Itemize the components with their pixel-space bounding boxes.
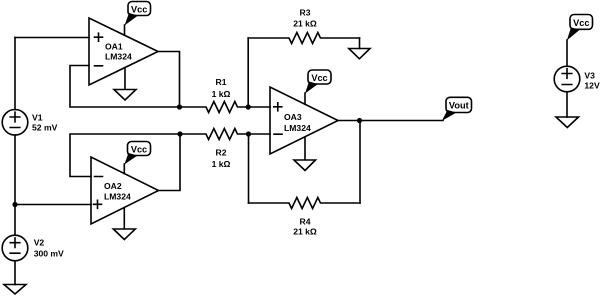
voltage source V3: [554, 66, 580, 92]
wire OA2 output: [159, 134, 181, 191]
node R1 right junction: [246, 104, 251, 109]
node OA1 output junction: [177, 104, 182, 109]
svg-text:V1: V1: [32, 112, 43, 122]
wire OA2 feedback minus input: [70, 134, 180, 177]
wire V3 Vcc stub: [566, 40, 568, 66]
svg-text:Vout: Vout: [449, 100, 469, 110]
svg-text:LM324: LM324: [105, 52, 132, 62]
wire V1 to V2 rail: [14, 135, 16, 235]
op-amp OA1: [89, 18, 158, 85]
svg-text:21 kΩ: 21 kΩ: [293, 19, 317, 29]
svg-text:V2: V2: [34, 238, 45, 248]
resistor R1: [180, 102, 249, 113]
wire R4 right vertical: [359, 121, 361, 204]
ground below V2: [4, 285, 26, 295]
svg-text:21 kΩ: 21 kΩ: [293, 227, 317, 237]
svg-text:R2: R2: [216, 147, 227, 157]
node OA3 output junction: [357, 118, 362, 123]
node OA2 output junction: [177, 131, 182, 136]
wire OA2 Vcc stub: [123, 164, 125, 174]
svg-text:V3: V3: [584, 71, 595, 81]
flag tail Vcc OA3: [305, 82, 318, 94]
resistor R3: [248, 33, 359, 44]
svg-text:LM324: LM324: [104, 192, 131, 202]
wire R3 right down: [359, 38, 361, 49]
wire R4 left vertical: [248, 134, 250, 203]
svg-text:52 mV: 52 mV: [32, 122, 58, 132]
ground OA2: [113, 208, 135, 240]
ground R3: [349, 49, 370, 59]
wire V2 to ground: [14, 261, 16, 285]
wire OA3 output to Vout: [338, 120, 443, 122]
voltage source V2: [2, 235, 28, 261]
resistor R4: [249, 198, 361, 209]
flag Vout: [446, 97, 472, 112]
svg-text:300 mV: 300 mV: [34, 249, 64, 259]
flag tail Vcc OA1: [125, 13, 139, 26]
ground V3: [556, 117, 579, 128]
flag Vcc V3: [570, 15, 593, 30]
ground OA1: [114, 68, 136, 101]
flag Vcc OA3: [308, 70, 331, 84]
wire junction to OA2 plus input: [15, 204, 91, 206]
svg-text:Vcc: Vcc: [311, 73, 327, 83]
node V1-V2 junction: [12, 202, 17, 207]
ground OA3: [294, 137, 316, 171]
wire R3 left vertical: [247, 38, 249, 107]
op-amp OA3: [270, 87, 338, 154]
voltage source V1: [2, 110, 28, 136]
svg-text:R4: R4: [300, 216, 311, 226]
svg-text:OA1: OA1: [105, 42, 123, 52]
flag Vcc OA2: [128, 142, 151, 156]
svg-text:OA2: OA2: [104, 181, 122, 191]
wire V3 to ground: [566, 92, 568, 117]
flag tail Vcc V3: [567, 28, 580, 41]
svg-text:12V: 12V: [584, 80, 600, 90]
svg-text:OA3: OA3: [284, 112, 302, 122]
svg-text:R1: R1: [216, 77, 227, 87]
wire OA3 Vcc stub: [304, 93, 306, 104]
wire OA1 output: [158, 52, 180, 108]
flag tail Vcc OA2: [124, 153, 137, 165]
svg-text:Vcc: Vcc: [131, 144, 147, 154]
svg-text:Vcc: Vcc: [131, 4, 147, 14]
svg-text:Vcc: Vcc: [573, 18, 589, 28]
wire R2 to OA3 minus: [249, 133, 271, 135]
wire OA1 Vcc stub: [124, 25, 126, 35]
flag tail Vout: [442, 110, 457, 121]
wire R1 to OA3 plus: [248, 106, 270, 108]
node R2 right junction: [246, 131, 251, 136]
op-amp OA2: [91, 157, 159, 224]
svg-text:1 kΩ: 1 kΩ: [212, 89, 231, 99]
svg-text:R3: R3: [300, 7, 311, 17]
wire OA1 feedback minus input: [70, 66, 180, 108]
wire V1 plus to OA1 plus input: [15, 37, 89, 39]
resistor R2: [180, 129, 249, 140]
wire left rail top: [14, 38, 16, 110]
svg-text:1 kΩ: 1 kΩ: [212, 159, 231, 169]
svg-text:LM324: LM324: [284, 123, 311, 133]
flag Vcc OA1: [128, 2, 151, 16]
